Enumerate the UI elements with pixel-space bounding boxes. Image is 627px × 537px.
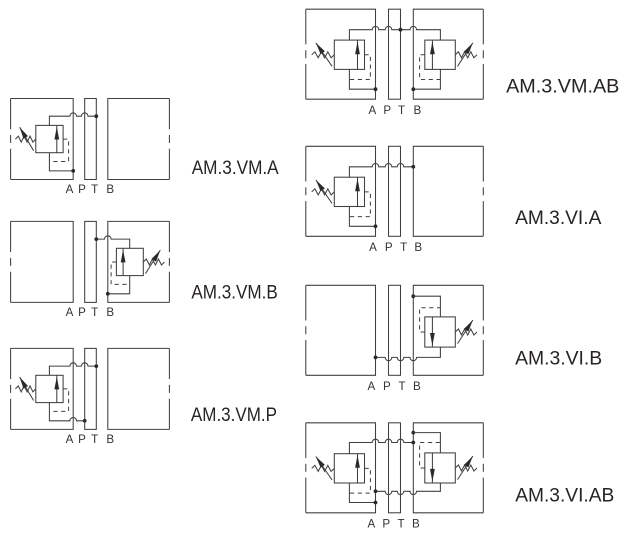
flow path arrow of V-VM.A — [54, 125, 59, 152]
VI.AB: wire left valve outlet to B line (hops A,P,T) — [349, 439, 413, 453]
svg-text:AM.3.VM.A: AM.3.VM.A — [192, 157, 280, 178]
VM.P: wire valve outlet to T line (hops A,P) — [49, 363, 96, 375]
relief valve V1-VI.AB body (square) — [334, 454, 364, 483]
flow path arrow of V2-VM.AB — [430, 40, 435, 69]
VI.A: wire valve outlet to B line (hops A,P,T) — [349, 164, 413, 178]
VM.AB: wire left valve inlet to A line — [349, 69, 375, 89]
adjustment spring of V1-VI.A — [312, 189, 335, 195]
VI.AB: right body plate (port B side) — [413, 423, 483, 513]
relief valve V-VI.B body (square) — [425, 317, 456, 347]
adjustability arrow of V1-VI.A — [316, 180, 332, 204]
svg-text:P: P — [383, 104, 391, 117]
VM.B: wire T line to valve outlet (hops B) — [96, 236, 129, 248]
VM.AB: left body plate (port A side) — [306, 9, 376, 99]
relief valve V2-VM.AB body (square) — [425, 40, 456, 69]
VM.AB: junction dot on B line — [411, 87, 415, 91]
svg-text:B: B — [414, 104, 422, 117]
VM.B: junction dot on B line — [106, 292, 110, 296]
svg-text:AM.3.VM.AB: AM.3.VM.AB — [506, 76, 619, 98]
pilot line (dashed) of V-VM.P — [49, 389, 68, 412]
adjustment spring of V1-VM.AB — [312, 52, 335, 58]
VM.A: wire valve outlet to T line (hops A,P) — [49, 113, 96, 126]
adjustability arrow of V-VM.A — [20, 127, 34, 151]
svg-text:T: T — [91, 433, 98, 446]
svg-text:B: B — [412, 518, 420, 531]
VM.B: P-T channel block — [85, 221, 97, 302]
VI.AB: wire B line to right valve inlet — [413, 433, 440, 453]
adjustability arrow of V2-VI.AB — [458, 456, 473, 480]
VM.P: left body plate (port A side) — [11, 348, 74, 429]
flow path arrow of V-VM.B — [121, 248, 126, 275]
svg-text:T: T — [91, 183, 98, 196]
VI.A: right body plate (port B side) — [413, 146, 483, 236]
VM.P: junction dot on T line — [94, 364, 98, 368]
svg-text:B: B — [106, 433, 114, 446]
svg-text:A: A — [66, 183, 74, 196]
VM.AB: wire right valve inlet to B line — [413, 69, 440, 89]
svg-text:P: P — [385, 241, 393, 254]
svg-text:P: P — [383, 380, 391, 393]
VM.AB: P-T channel block — [389, 9, 401, 99]
VM.P: P-T channel block — [85, 348, 97, 429]
VM.A: right body plate (port B side) — [108, 99, 170, 180]
VM.B: left body plate (port A side) — [11, 221, 74, 302]
svg-text:A: A — [66, 306, 74, 319]
svg-text:B: B — [106, 183, 114, 196]
adjustment spring of V2-VM.AB — [455, 52, 477, 58]
relief valve V-VM.B body (square) — [116, 248, 143, 275]
pilot line (dashed) of V-VM.B — [111, 262, 130, 284]
adjustability arrow of V1-VM.AB — [316, 43, 332, 66]
VM.AB: wire both valve outlets to T line (hops A,P,B) — [349, 26, 440, 40]
svg-text:A: A — [368, 380, 376, 393]
VM.A: junction dot on A line — [71, 169, 75, 173]
pilot line (dashed) of V-VI.B — [420, 308, 441, 332]
svg-text:A: A — [369, 104, 377, 117]
VI.B: right body plate (port B side) — [413, 285, 483, 375]
svg-text:P: P — [78, 183, 86, 196]
VI.B: junction dot on A line — [374, 356, 378, 360]
VM.AB: junction dot on A line — [374, 87, 378, 91]
pilot line (dashed) of V2-VI.AB — [420, 443, 441, 469]
adjustment spring of V-VM.A — [15, 136, 35, 142]
VM.A: wire valve inlet to A line — [49, 153, 73, 171]
flow path arrow of V1-VI.AB — [355, 454, 360, 483]
adjustability arrow of V-VM.P — [20, 377, 34, 401]
svg-text:AM.3.VI.A: AM.3.VI.A — [515, 208, 602, 229]
flow path arrow of V1-VM.AB — [355, 40, 360, 69]
relief valve V2-VI.AB body (square) — [425, 453, 456, 483]
adjustability arrow of V-VI.B — [458, 320, 473, 344]
flow path arrow of V1-VI.A — [355, 177, 360, 206]
svg-text:T: T — [91, 306, 98, 319]
svg-text:T: T — [398, 104, 405, 117]
VI.A: junction dot on A line — [374, 224, 378, 228]
VM.B: right body plate (port B side) — [108, 221, 170, 302]
svg-text:AM.3.VI.AB: AM.3.VI.AB — [515, 485, 614, 506]
adjustment spring of V-VI.B — [455, 329, 477, 335]
adjustment spring of V-VM.P — [15, 386, 35, 392]
VI.AB: junction dot on A line (left valve inlet) — [374, 501, 378, 505]
VI.AB: P-T channel block — [389, 423, 401, 513]
svg-text:AM.3.VI.B: AM.3.VI.B — [515, 349, 602, 370]
svg-text:B: B — [413, 380, 421, 393]
svg-text:A: A — [66, 433, 74, 446]
VI.AB: junction dot on B line (left valve outlet) — [411, 441, 415, 445]
VI.B: left body plate (port A side) — [306, 285, 376, 375]
VM.AB: right body plate (port B side) — [413, 9, 483, 99]
adjustability arrow of V2-VM.AB — [458, 43, 473, 66]
VI.AB: wire left valve inlet to A line — [349, 483, 375, 503]
svg-text:T: T — [399, 380, 406, 393]
relief valve V1-VI.A body (square) — [334, 177, 364, 206]
pilot line (dashed) of V1-VI.AB — [349, 468, 370, 493]
pilot line (dashed) of V-VM.A — [49, 139, 68, 161]
VI.B: wire B line to valve inlet — [413, 296, 440, 317]
VM.B: wire valve inlet to B line — [108, 276, 130, 294]
flow path arrow of V-VI.B — [430, 317, 435, 347]
VI.B: junction dot on B line — [411, 294, 415, 298]
VI.A: junction dot on B line — [411, 165, 415, 169]
VI.A: wire valve inlet to A line — [349, 207, 375, 227]
svg-text:A: A — [369, 241, 377, 254]
svg-text:AM.3.VM.P: AM.3.VM.P — [191, 404, 277, 425]
VI.A: left body plate (port A side) — [306, 146, 376, 236]
VI.AB: wire right valve outlet to A line (hops B,T,P) — [376, 483, 441, 495]
VM.P: right body plate (port B side) — [108, 348, 170, 429]
VM.A: junction dot on T line — [94, 114, 98, 118]
VI.AB: junction dot on A line (right valve outlet) — [374, 489, 378, 493]
VI.A: P-T channel block — [389, 146, 401, 236]
relief valve V-VM.P body (square) — [36, 375, 63, 402]
VI.AB: junction dot on B line (right valve inlet) — [411, 431, 415, 435]
relief valve V-VM.A body (square) — [36, 125, 63, 152]
adjustability arrow of V-VM.B — [146, 250, 161, 274]
VM.A: P-T channel block — [85, 99, 97, 180]
svg-text:B: B — [106, 306, 114, 319]
svg-text:P: P — [78, 433, 86, 446]
adjustability arrow of V1-VI.AB — [316, 457, 332, 481]
svg-text:P: P — [382, 518, 390, 531]
flow path arrow of V-VM.P — [54, 375, 59, 402]
pilot line (dashed) of V1-VM.AB — [349, 55, 370, 80]
flow path arrow of V2-VI.AB — [430, 453, 435, 483]
svg-text:AM.3.VM.B: AM.3.VM.B — [191, 282, 277, 303]
VM.P: junction dot on P line — [83, 419, 87, 423]
VI.AB: left body plate (port A side) — [306, 423, 376, 513]
svg-text:A: A — [368, 518, 376, 531]
VM.A: left body plate (port A side) — [11, 99, 74, 180]
VM.P: wire valve inlet to P line (hops A) — [49, 403, 84, 421]
svg-text:B: B — [414, 241, 422, 254]
VI.B: wire valve outlet to A line (hops B,T,P) — [376, 347, 441, 361]
VI.B: P-T channel block — [389, 285, 401, 375]
VM.AB: junction dot on T line — [399, 28, 403, 32]
svg-text:P: P — [78, 306, 86, 319]
svg-text:T: T — [398, 518, 405, 531]
pilot line (dashed) of V1-VI.A — [349, 192, 370, 217]
adjustment spring of V-VM.B — [143, 259, 164, 265]
svg-text:T: T — [400, 241, 407, 254]
relief valve V1-VM.AB body (square) — [334, 40, 364, 69]
pilot line (dashed) of V2-VM.AB — [420, 55, 441, 80]
adjustment spring of V2-VI.AB — [455, 465, 477, 471]
adjustment spring of V1-VI.AB — [312, 465, 335, 471]
VM.B: junction dot on T line — [94, 237, 98, 241]
